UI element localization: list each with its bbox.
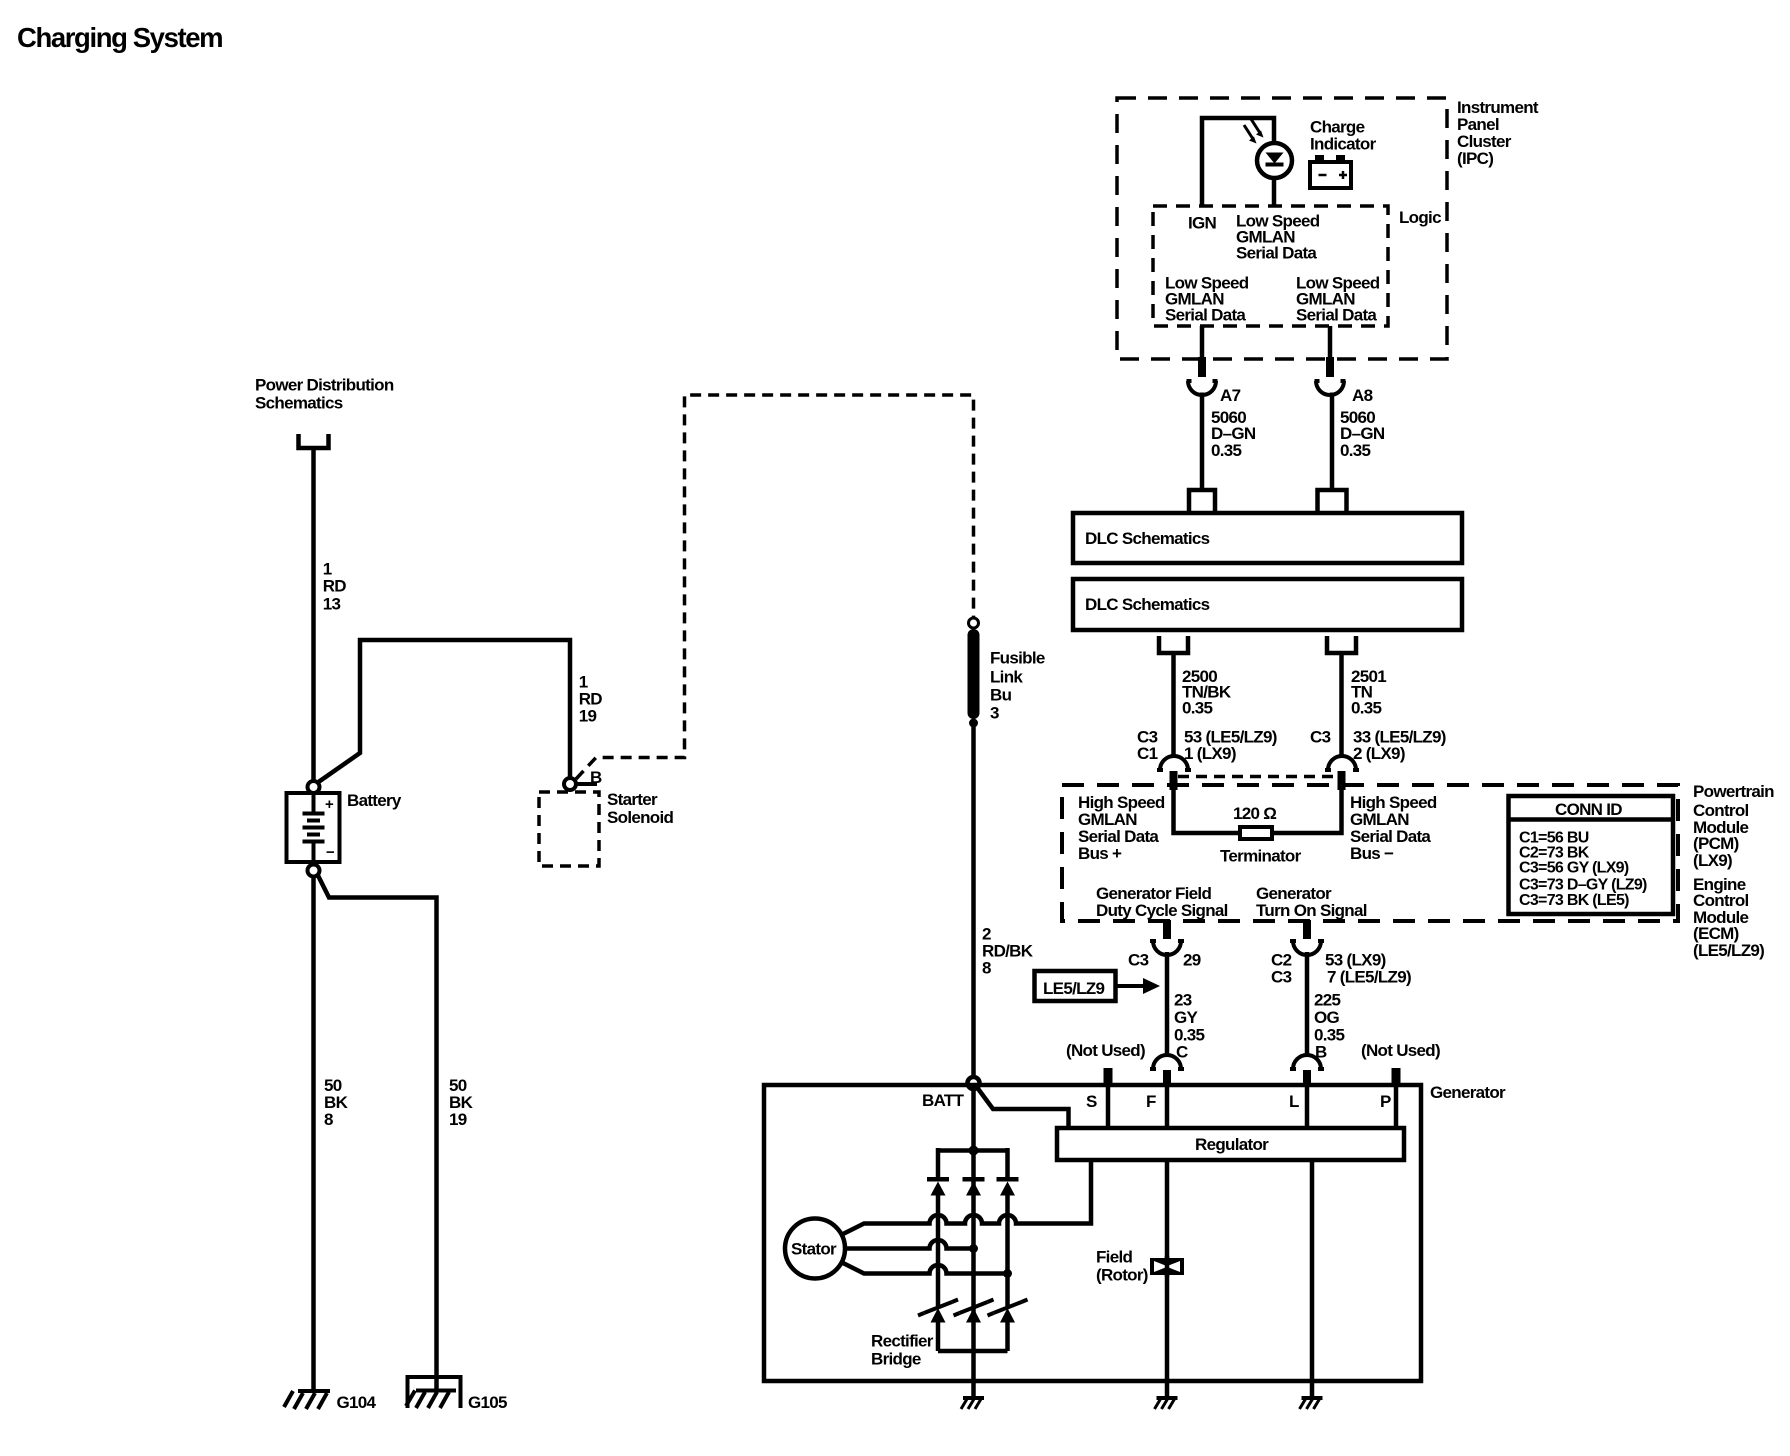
svg-text:Generator: Generator bbox=[1430, 1083, 1506, 1102]
ground G104 bbox=[284, 1391, 377, 1412]
wire stator phase 1 bbox=[841, 1160, 1091, 1235]
svg-text:Rectifier: Rectifier bbox=[871, 1332, 934, 1351]
svg-text:8: 8 bbox=[982, 959, 991, 978]
diode D4 bottom bbox=[918, 1300, 958, 1323]
svg-text:120 Ω: 120 Ω bbox=[1233, 804, 1276, 823]
diode D1 top bbox=[927, 1177, 949, 1196]
connector cup C2/C3 bbox=[1293, 941, 1321, 955]
svg-text:LE5/LZ9: LE5/LZ9 bbox=[1043, 979, 1104, 998]
svg-text:Link: Link bbox=[990, 668, 1023, 687]
fusible link Bu 3 bbox=[968, 618, 980, 728]
svg-text:8: 8 bbox=[324, 1110, 333, 1129]
svg-text:Regulator: Regulator bbox=[1195, 1135, 1269, 1154]
wire F to regulator bbox=[1165, 1086, 1170, 1128]
wire branch to starter solenoid 1 RD 19 bbox=[317, 640, 570, 783]
pin 53/7 out of PCM bbox=[1303, 920, 1311, 939]
wire 5060 D-GN left bbox=[1200, 393, 1205, 490]
connector cup A7 bbox=[1188, 381, 1216, 395]
svg-text:L: L bbox=[1289, 1092, 1299, 1111]
wire logic to IPC pins bbox=[1200, 326, 1205, 358]
CONN ID table bbox=[1509, 796, 1674, 914]
svg-text:C3: C3 bbox=[1271, 968, 1292, 987]
svg-text:Stator: Stator bbox=[791, 1240, 837, 1259]
ground L bbox=[1300, 1398, 1323, 1409]
svg-text:0.35: 0.35 bbox=[1182, 699, 1213, 718]
diode D2 top bbox=[963, 1177, 985, 1196]
svg-text:C1: C1 bbox=[1137, 744, 1158, 763]
svg-text:C3: C3 bbox=[1128, 951, 1149, 970]
svg-text:Terminator: Terminator bbox=[1220, 847, 1302, 866]
svg-text:Fusible: Fusible bbox=[990, 649, 1045, 668]
battery BAT1 bbox=[287, 793, 340, 862]
svg-text:0.35: 0.35 bbox=[1211, 441, 1242, 460]
wire 2500 TN/BK bbox=[1171, 653, 1176, 758]
svg-text:7 (LE5/LZ9): 7 (LE5/LZ9) bbox=[1327, 968, 1411, 987]
svg-text:C3=73 BK (LE5): C3=73 BK (LE5) bbox=[1519, 892, 1629, 909]
pin A8 bbox=[1326, 357, 1334, 377]
wire P to regulator bbox=[1394, 1086, 1399, 1128]
svg-text:Serial Data: Serial Data bbox=[1296, 306, 1377, 325]
svg-text:Logic: Logic bbox=[1399, 208, 1441, 227]
svg-text:Bus −: Bus − bbox=[1350, 844, 1394, 863]
ground G105 bbox=[406, 1377, 507, 1412]
LED charge indicator lamp bbox=[1244, 119, 1292, 178]
wire 5060 D-GN right bbox=[1330, 393, 1335, 490]
svg-text:Bridge: Bridge bbox=[871, 1350, 921, 1369]
svg-text:Serial Data: Serial Data bbox=[1165, 306, 1246, 325]
wire terminator loop bbox=[1174, 790, 1241, 833]
generator box bbox=[764, 1085, 1421, 1381]
svg-text:RD: RD bbox=[323, 577, 347, 596]
battery icon charge indicator bbox=[1310, 155, 1351, 188]
diode D5 bottom bbox=[954, 1300, 994, 1323]
ground field bbox=[1155, 1398, 1178, 1409]
svg-text:(IPC): (IPC) bbox=[1457, 149, 1493, 168]
svg-text:+: + bbox=[325, 796, 334, 813]
svg-text:Starter: Starter bbox=[607, 790, 658, 809]
svg-text:G104: G104 bbox=[337, 1393, 377, 1412]
starter solenoid (dashed box) bbox=[539, 792, 599, 866]
svg-text:IGN: IGN bbox=[1188, 214, 1217, 233]
svg-text:A7: A7 bbox=[1220, 386, 1241, 405]
field rotor winding bbox=[1150, 1256, 1184, 1277]
connector arc into PCM left bbox=[1160, 756, 1188, 770]
svg-text:19: 19 bbox=[579, 707, 597, 726]
wire bracket into DLC box 1 left bbox=[1189, 490, 1215, 511]
pin 29 C3 out of PCM bbox=[1163, 920, 1171, 939]
regulator bbox=[1057, 1128, 1404, 1160]
svg-text:29: 29 bbox=[1183, 951, 1201, 970]
svg-text:Duty Cycle Signal: Duty Cycle Signal bbox=[1096, 901, 1228, 920]
svg-text:Solenoid: Solenoid bbox=[607, 808, 673, 827]
wire main BATT vertical through generator bbox=[971, 1089, 976, 1397]
svg-text:C3: C3 bbox=[1310, 728, 1331, 747]
svg-text:C3=73 D–GY (LZ9): C3=73 D–GY (LZ9) bbox=[1519, 876, 1647, 893]
wire power distribution bracket bbox=[299, 434, 329, 448]
node rectifier junction bbox=[969, 1146, 979, 1156]
svg-text:0.35: 0.35 bbox=[1340, 441, 1371, 460]
DLC Schematics box 2 bbox=[1073, 579, 1462, 630]
svg-text:G105: G105 bbox=[468, 1393, 507, 1412]
svg-text:(LX9): (LX9) bbox=[1693, 851, 1732, 870]
svg-text:BATT: BATT bbox=[922, 1091, 965, 1110]
svg-text:2 (LX9): 2 (LX9) bbox=[1353, 744, 1405, 763]
connector cup A8 bbox=[1316, 381, 1344, 395]
svg-text:Turn On Signal: Turn On Signal bbox=[1256, 901, 1367, 920]
svg-text:Charging System: Charging System bbox=[17, 22, 222, 53]
svg-text:S: S bbox=[1086, 1092, 1097, 1111]
connector arc into PCM right bbox=[1328, 756, 1356, 770]
wire IGN feed inside IPC bbox=[1202, 118, 1274, 206]
svg-text:Bu: Bu bbox=[990, 686, 1012, 705]
svg-text:Schematics: Schematics bbox=[255, 394, 343, 413]
wire bracket below DLC box 2 left bbox=[1159, 636, 1188, 653]
wire 2 RD/BK 8 bbox=[971, 727, 976, 1077]
node B terminal starter solenoid bbox=[564, 778, 576, 790]
wire 2501 TN bbox=[1339, 653, 1344, 758]
svg-text:(Not Used): (Not Used) bbox=[1066, 1041, 1145, 1060]
wire dashed bus link bbox=[1178, 775, 1338, 779]
svg-text:P: P bbox=[1380, 1092, 1391, 1111]
connector cup C3-29 bbox=[1153, 941, 1181, 955]
DLC Schematics box 1 bbox=[1073, 513, 1462, 563]
svg-text:225: 225 bbox=[1314, 991, 1341, 1010]
wire field F column bbox=[1165, 1160, 1170, 1397]
svg-text:1 (LX9): 1 (LX9) bbox=[1184, 744, 1236, 763]
wire dashed link from solenoid B to fusible link bbox=[576, 395, 974, 779]
resistor 120 ohm terminator bbox=[1240, 827, 1272, 839]
connector arc into generator B bbox=[1293, 1055, 1321, 1069]
svg-text:19: 19 bbox=[449, 1110, 467, 1129]
wire bracket below DLC box 2 right bbox=[1327, 636, 1356, 653]
svg-text:Indicator: Indicator bbox=[1310, 135, 1377, 154]
wire 50 BK 19 branch to G105 bbox=[318, 875, 437, 1391]
stator bbox=[785, 1219, 845, 1279]
wire 1 RD 13 vertical bbox=[311, 448, 316, 781]
svg-text:13: 13 bbox=[323, 595, 341, 614]
LE5/LZ9 flag box bbox=[1035, 971, 1161, 1001]
wire rectifier bottom bus bbox=[936, 1322, 941, 1351]
pin S not used bbox=[1104, 1068, 1113, 1086]
logic block (dashed) bbox=[1153, 206, 1388, 326]
svg-text:DLC Schematics: DLC Schematics bbox=[1085, 529, 1210, 548]
svg-text:Field: Field bbox=[1096, 1248, 1132, 1267]
wire BATT to regulator bbox=[976, 1086, 1069, 1128]
wire stator phase 3 bbox=[841, 1262, 1008, 1274]
diode D6 bottom bbox=[988, 1300, 1028, 1323]
wire 50 BK 8 to G104 bbox=[311, 877, 316, 1391]
svg-text:F: F bbox=[1146, 1092, 1156, 1111]
wire diode legs down bbox=[936, 1195, 941, 1306]
svg-text:(Rotor): (Rotor) bbox=[1096, 1266, 1148, 1285]
ground generator main bbox=[961, 1398, 984, 1409]
svg-text:3: 3 bbox=[990, 704, 999, 723]
svg-text:A8: A8 bbox=[1352, 386, 1373, 405]
wire L column to ground bbox=[1310, 1160, 1315, 1397]
svg-text:CONN ID: CONN ID bbox=[1555, 800, 1622, 819]
svg-text:DLC Schematics: DLC Schematics bbox=[1085, 595, 1210, 614]
svg-text:(Not Used): (Not Used) bbox=[1361, 1041, 1440, 1060]
wire rectifier top bus bbox=[938, 1148, 1008, 1153]
powertrain control module PCM (dashed box) bbox=[1062, 785, 1678, 921]
svg-text:Powertrain: Powertrain bbox=[1693, 782, 1774, 801]
wire stator phase 2 bbox=[845, 1240, 974, 1249]
svg-text:Battery: Battery bbox=[347, 791, 402, 810]
wire bracket into DLC box 1 right bbox=[1318, 490, 1347, 511]
wire 225 OG 0.35 bbox=[1305, 952, 1310, 1057]
svg-text:(LE5/LZ9): (LE5/LZ9) bbox=[1693, 941, 1764, 960]
svg-text:−: − bbox=[326, 844, 335, 861]
connector arc into generator C bbox=[1153, 1055, 1181, 1069]
diode D3 top bbox=[997, 1177, 1019, 1196]
svg-text:Bus +: Bus + bbox=[1078, 844, 1122, 863]
wire S to regulator bbox=[1106, 1086, 1111, 1128]
instrument panel cluster IPC (dashed box) bbox=[1117, 98, 1447, 359]
svg-text:OG: OG bbox=[1314, 1008, 1340, 1027]
battery B+ bbox=[287, 781, 402, 877]
svg-text:Serial Data: Serial Data bbox=[1236, 244, 1317, 263]
pin A7 bbox=[1198, 357, 1206, 377]
node BATT junction bbox=[968, 1077, 980, 1089]
svg-text:GY: GY bbox=[1174, 1008, 1199, 1027]
pin P not used bbox=[1392, 1068, 1401, 1086]
wire 23 GY 0.35 bbox=[1165, 952, 1170, 1057]
node battery negative terminal bbox=[308, 865, 320, 877]
svg-text:23: 23 bbox=[1174, 991, 1192, 1010]
node battery positive terminal bbox=[308, 781, 320, 793]
wire L to regulator bbox=[1305, 1086, 1310, 1128]
svg-text:Power Distribution: Power Distribution bbox=[255, 376, 394, 395]
svg-text:C3=56 GY (LX9): C3=56 GY (LX9) bbox=[1519, 859, 1629, 876]
svg-text:0.35: 0.35 bbox=[1351, 699, 1382, 718]
